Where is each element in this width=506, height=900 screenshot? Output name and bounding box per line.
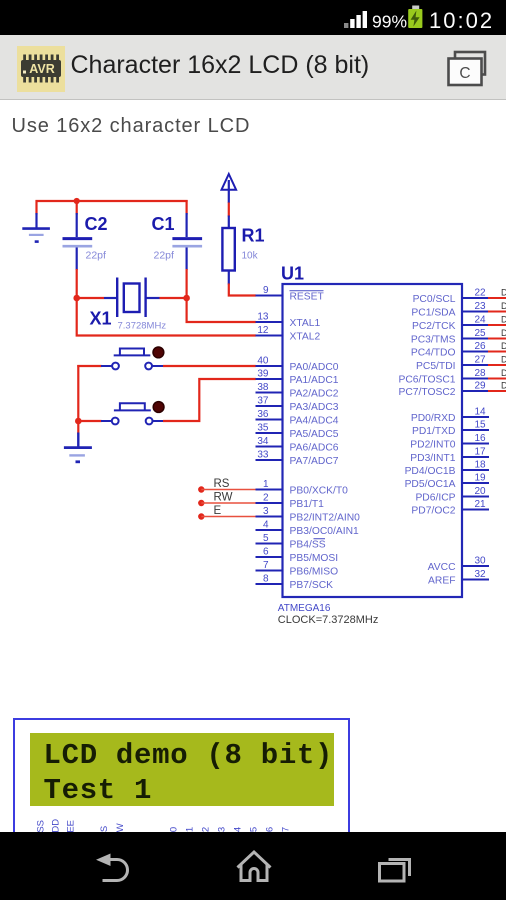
label R1 <box>242 226 265 246</box>
U1 pin 12 (XTAL2) stub <box>256 335 284 337</box>
svg-text:PA6/ADC6: PA6/ADC6 <box>290 443 339 454</box>
svg-text:PD1/TXD: PD1/TXD <box>412 426 456 437</box>
svg-text:22: 22 <box>474 288 486 299</box>
crystal X1 <box>104 278 160 318</box>
U1 pin name PA5/ADC5 <box>290 429 339 440</box>
wire: crystal row left segment <box>77 297 104 299</box>
svg-text:21: 21 <box>474 499 486 510</box>
svg-text:D6: D6 <box>501 368 506 378</box>
svg-text:36: 36 <box>257 409 269 420</box>
svg-text:PA0/ADC0: PA0/ADC0 <box>290 362 339 373</box>
U1 pin 30 (AVCC) stub <box>461 565 489 567</box>
svg-text:PB4/SS: PB4/SS <box>290 540 326 551</box>
wire: net D0 from pin 22 to LCD <box>488 297 506 299</box>
svg-text:PB0/XCK/T0: PB0/XCK/T0 <box>290 486 349 497</box>
svg-text:C1: C1 <box>152 214 175 234</box>
LCD pin label VDD <box>51 819 62 839</box>
U1 pin name PA3/ADC3 <box>290 402 339 413</box>
U1 pin number 16 <box>474 433 486 444</box>
part name ATMEGA16 <box>278 603 331 614</box>
wire: net D5 from pin 27 to LCD <box>488 364 506 366</box>
LCD pin labels <box>0 805 310 845</box>
status: battery percent 99% <box>372 12 407 32</box>
U1 pin name PC5/TDI <box>416 361 455 372</box>
U1 pin number 17 <box>474 447 486 458</box>
nav: back button <box>96 854 128 881</box>
U1 pin name PD4/OC1B <box>405 466 456 477</box>
U1 pin name PC7/TOSC2 <box>398 387 455 398</box>
net label D6 <box>501 368 506 378</box>
LCD text line 2 <box>44 774 153 807</box>
svg-text:D7: D7 <box>501 381 506 391</box>
U1 pin 17 (PD3/INT1) stub <box>461 456 489 458</box>
wire: R1 to RESET pin 9 <box>229 284 256 296</box>
U1 pin number 26 <box>474 341 486 352</box>
wire: net D4 from pin 26 to LCD <box>488 351 506 353</box>
U1 pin name PB1/T1 <box>290 499 325 510</box>
svg-text:PD4/OC1B: PD4/OC1B <box>405 466 456 477</box>
svg-text:RESET: RESET <box>290 292 325 303</box>
node RW terminal dot <box>198 500 204 506</box>
wire: net RS to U1 <box>201 489 256 491</box>
U1 pin number 4 <box>263 520 269 531</box>
svg-text:30: 30 <box>474 556 486 567</box>
U1 pin 2 (PB1/T1) stub <box>256 502 284 504</box>
LCD pin label E <box>131 833 142 839</box>
svg-text:13: 13 <box>257 312 269 323</box>
U1 pin name PD6/ICP <box>415 493 455 504</box>
svg-text:PC4/TDO: PC4/TDO <box>411 348 456 359</box>
status: clock 10:02 <box>429 8 494 33</box>
net label D3 <box>501 328 506 338</box>
U1 pin number 2 <box>263 493 269 504</box>
U1 pin name PB7/SCK <box>290 580 334 591</box>
U1 pin name XTAL2 <box>290 332 321 343</box>
U1 pin name PC0/SCL <box>413 294 456 305</box>
U1 pin 24 (PC2/TCK) stub <box>461 324 489 326</box>
U1 pin number 32 <box>474 569 486 580</box>
LCD screen <box>30 733 334 806</box>
wire: button rail vertical <box>77 365 79 421</box>
svg-text:PC6/TOSC1: PC6/TOSC1 <box>398 375 455 386</box>
svg-text:PB6/MISO: PB6/MISO <box>290 567 339 578</box>
svg-text:32: 32 <box>474 569 486 580</box>
U1 pin number 21 <box>474 499 486 510</box>
wire: VCC to R1 <box>228 203 230 217</box>
U1 pin 7 (PB6/MISO) stub <box>256 570 284 572</box>
svg-text:8: 8 <box>263 574 269 585</box>
ground (bottom-left) <box>64 421 92 462</box>
SW2 state indicator dot <box>153 402 164 413</box>
wire: net D2 from pin 24 to LCD <box>488 324 506 326</box>
svg-text:PC1/SDA: PC1/SDA <box>411 308 455 319</box>
U1 pin name AREF <box>428 576 455 587</box>
svg-text:D5: D5 <box>501 355 506 365</box>
U1 pin number 19 <box>474 473 486 484</box>
U1 pin 4 (PB3/OC0/AIN1) stub <box>256 529 284 531</box>
U1 pin name PB3/OC0/AIN1 <box>290 526 360 537</box>
U1 pin name PC2/TCK <box>412 321 456 332</box>
net label E <box>214 505 222 517</box>
LCD pin label D7 <box>281 827 292 839</box>
U1 pin 20 (PD6/ICP) stub <box>461 496 489 498</box>
svg-text:PD5/OC1A: PD5/OC1A <box>405 479 456 490</box>
svg-text:23: 23 <box>474 301 486 312</box>
U1 pin 32 (AREF) stub <box>461 579 489 581</box>
svg-text:RS: RS <box>214 478 230 490</box>
wire: net D3 from pin 25 to LCD <box>488 338 506 340</box>
description text <box>12 115 251 138</box>
U1 pin number 22 <box>474 288 486 299</box>
svg-text:37: 37 <box>257 396 269 407</box>
push button SW1 <box>101 349 164 370</box>
U1 pin 9 (RESET) stub <box>256 295 284 297</box>
SW1 state indicator dot <box>153 347 164 358</box>
svg-text:AREF: AREF <box>428 576 455 587</box>
junction: top rail at C2 <box>74 198 80 204</box>
U1 pin 16 (PD2/INT0) stub <box>461 443 489 445</box>
svg-text:PB7/SCK: PB7/SCK <box>290 580 334 591</box>
svg-text:PC0/SCL: PC0/SCL <box>413 294 456 305</box>
svg-text:C2: C2 <box>85 214 108 234</box>
U1 pin name XTAL1 <box>290 318 321 329</box>
LCD module LCD1 outline <box>13 718 350 874</box>
net label RS <box>214 478 230 490</box>
svg-text:PD7/OC2: PD7/OC2 <box>411 506 455 517</box>
svg-text:19: 19 <box>474 473 486 484</box>
U1 pin name PB0/XCK/T0 <box>290 486 349 497</box>
LCD pin label VSS <box>36 820 47 839</box>
U1 pin number 7 <box>263 560 269 571</box>
value X1 7.3728MHz <box>118 321 167 332</box>
LCD pin label RW <box>115 823 126 839</box>
svg-text:PA1/ADC1: PA1/ADC1 <box>290 375 339 386</box>
LCD pin label RS <box>99 826 110 839</box>
U1 pin number 33 <box>257 450 269 461</box>
svg-text:E: E <box>214 505 222 517</box>
svg-text:RW: RW <box>214 492 233 504</box>
svg-text:D2: D2 <box>501 315 506 325</box>
svg-text:17: 17 <box>474 447 486 458</box>
U1 pin number 39 <box>257 369 269 380</box>
U1 pin name PA0/ADC0 <box>290 362 339 373</box>
svg-text:AVCC: AVCC <box>428 562 456 573</box>
U1 pin name PA7/ADC7 <box>290 456 339 467</box>
label U1 <box>281 264 304 284</box>
LCD pin label D6 <box>265 827 276 839</box>
svg-text:99%: 99% <box>372 12 407 32</box>
svg-text:14: 14 <box>474 407 486 418</box>
svg-text:PA7/ADC7: PA7/ADC7 <box>290 456 339 467</box>
LCD pin label D3 <box>217 827 228 839</box>
LCD pin label D5 <box>249 827 260 839</box>
U1 pin name PD3/INT1 <box>410 453 455 464</box>
circuit schematic <box>0 120 506 680</box>
svg-text:PD3/INT1: PD3/INT1 <box>410 453 455 464</box>
push button SW2 <box>101 403 164 424</box>
U1 pin name PD2/INT0 <box>410 440 455 451</box>
svg-text:12: 12 <box>257 325 269 336</box>
svg-text:15: 15 <box>474 420 486 431</box>
U1 pin 40 (PA0/ADC0) stub <box>256 365 284 367</box>
LCD text line 1 <box>44 739 334 772</box>
U1 pin number 38 <box>257 382 269 393</box>
svg-text:7.3728MHz: 7.3728MHz <box>118 321 167 332</box>
svg-text:27: 27 <box>474 355 486 366</box>
svg-text:C: C <box>459 65 470 82</box>
U1 pin name PD1/TXD <box>412 426 456 437</box>
net label D4 <box>501 341 506 351</box>
status: signal strength icon <box>344 11 367 28</box>
U1 pin number 27 <box>474 355 486 366</box>
svg-text:3: 3 <box>263 506 269 517</box>
U1 pin number 18 <box>474 460 486 471</box>
U1 pin number 9 <box>263 285 269 296</box>
net label RW <box>214 492 233 504</box>
U1 pin name PA1/ADC1 <box>290 375 339 386</box>
U1 pin 3 (PB2/INT2/AIN0) stub <box>256 516 284 518</box>
svg-text:PD0/RXD: PD0/RXD <box>411 413 456 424</box>
U1 pin name PB5/MOSI <box>290 553 339 564</box>
U1 pin number 6 <box>263 547 269 558</box>
svg-text:PB2/INT2/AIN0: PB2/INT2/AIN0 <box>290 513 361 524</box>
LCD pin label D4 <box>233 827 244 839</box>
U1 pin 22 (PC0/SCL) stub <box>461 297 489 299</box>
app icon AVR chip <box>17 46 65 92</box>
svg-text:PA4/ADC4: PA4/ADC4 <box>290 416 339 427</box>
wire: VCC net top rail (GND stub to C2 to C1) <box>36 200 188 215</box>
wire: net E to U1 <box>201 516 256 518</box>
svg-text:38: 38 <box>257 382 269 393</box>
LCD pin label D1 <box>185 827 196 839</box>
net label D0 <box>501 288 506 298</box>
value C1 22pf <box>154 250 175 262</box>
svg-text:5: 5 <box>263 533 269 544</box>
U1 pin 39 (PA1/ADC1) stub <box>256 378 284 380</box>
capacitor C2 <box>63 213 93 270</box>
U1 pin number 37 <box>257 396 269 407</box>
junction: crystal left node <box>73 295 80 302</box>
status: battery charging icon <box>408 6 422 29</box>
value C2 22pf <box>86 250 107 262</box>
U1 pin 38 (PA2/ADC2) stub <box>256 392 284 394</box>
ground (top-left) <box>22 213 50 242</box>
U1 pin number 8 <box>263 574 269 585</box>
svg-text:PC3/TMS: PC3/TMS <box>411 335 456 346</box>
U1 pin number 1 <box>263 479 269 490</box>
U1 pin number 25 <box>474 328 486 339</box>
wire: button 2 left <box>77 420 101 422</box>
property CLOCK=7.3728MHz <box>278 614 379 626</box>
svg-text:22pf: 22pf <box>86 250 107 262</box>
wire: net RW to U1 <box>201 502 256 504</box>
net label D5 <box>501 355 506 365</box>
svg-text:6: 6 <box>263 547 269 558</box>
nav: recent apps button <box>380 860 410 882</box>
node E terminal dot <box>198 513 204 519</box>
navigation bar <box>0 832 506 900</box>
svg-text:22pf: 22pf <box>154 250 175 262</box>
U1 pin name PC4/TDO <box>411 348 456 359</box>
U1 pin number 35 <box>257 423 269 434</box>
label C1 <box>152 214 175 234</box>
U1 pin number 20 <box>474 486 486 497</box>
svg-text:7: 7 <box>263 560 269 571</box>
svg-text:PD6/ICP: PD6/ICP <box>415 493 455 504</box>
U1 pin 37 (PA3/ADC3) stub <box>256 405 284 407</box>
U1 pin name PC1/SDA <box>411 308 455 319</box>
U1 pin 15 (PD1/TXD) stub <box>461 429 489 431</box>
svg-text:25: 25 <box>474 328 486 339</box>
U1 pin 25 (PC3/TMS) stub <box>461 338 489 340</box>
svg-text:28: 28 <box>474 368 486 379</box>
U1 pin name PB4/SS <box>290 539 326 551</box>
junction: rail at button 2 <box>75 418 82 425</box>
U1 pin 33 (PA7/ADC7) stub <box>256 459 284 461</box>
capacitor C1 <box>172 213 202 270</box>
U1 pin number 40 <box>257 356 269 367</box>
svg-text:1: 1 <box>263 479 269 490</box>
power VCC arrow terminal <box>222 174 237 203</box>
svg-text:D3: D3 <box>501 328 506 338</box>
U1 pin 6 (PB5/MOSI) stub <box>256 556 284 558</box>
U1 pin 28 (PC6/TOSC1) stub <box>461 378 489 380</box>
svg-text:26: 26 <box>474 341 486 352</box>
U1 pin name RESET <box>290 291 325 303</box>
svg-text:20: 20 <box>474 486 486 497</box>
svg-text:18: 18 <box>474 460 486 471</box>
svg-text:16: 16 <box>474 433 486 444</box>
svg-text:10:02: 10:02 <box>429 8 494 33</box>
wire: net D1 from pin 23 to LCD <box>488 311 506 313</box>
junction: crystal right node <box>183 295 190 302</box>
LCD pin label D2 <box>201 827 212 839</box>
svg-text:PA5/ADC5: PA5/ADC5 <box>290 429 339 440</box>
svg-text:PC7/TOSC2: PC7/TOSC2 <box>398 387 455 398</box>
U1 pin name PB6/MISO <box>290 567 339 578</box>
svg-text:XTAL2: XTAL2 <box>290 332 321 343</box>
svg-text:D4: D4 <box>501 341 506 351</box>
wire: button 1 to PA0 pin 40 <box>163 365 256 367</box>
U1 pin name PD5/OC1A <box>405 479 456 490</box>
svg-text:9: 9 <box>263 285 269 296</box>
U1 pin 21 (PD7/OC2) stub <box>461 509 489 511</box>
wire: net D6 from pin 28 to LCD <box>488 378 506 380</box>
U1 pin number 28 <box>474 368 486 379</box>
U1 pin name AVCC <box>428 562 456 573</box>
U1 pin 26 (PC4/TDO) stub <box>461 351 489 353</box>
svg-text:PD2/INT0: PD2/INT0 <box>410 440 455 451</box>
net label D1 <box>501 301 506 311</box>
svg-text:35: 35 <box>257 423 269 434</box>
LCD pin label VEE <box>66 820 77 839</box>
U1 pin number 23 <box>474 301 486 312</box>
svg-text:D0: D0 <box>501 288 506 298</box>
svg-text:U1: U1 <box>281 264 304 284</box>
U1 pin 5 (PB4/SS) stub <box>256 543 284 545</box>
svg-text:AVR: AVR <box>29 62 54 76</box>
U1 pin number 14 <box>474 407 486 418</box>
svg-text:XTAL1: XTAL1 <box>290 318 321 329</box>
IC U1 ATMEGA16 body <box>283 284 463 597</box>
svg-text:PA3/ADC3: PA3/ADC3 <box>290 402 339 413</box>
action icon: C source window <box>446 50 488 88</box>
U1 pin 29 (PC7/TOSC2) stub <box>461 390 489 392</box>
wire: C1 bottom to crystal right / XTAL1 drop <box>187 269 256 322</box>
net label D7 <box>501 381 506 391</box>
U1 pin number 30 <box>474 556 486 567</box>
net label D2 <box>501 315 506 325</box>
U1 pin 13 (XTAL1) stub <box>256 321 284 323</box>
resistor R1 <box>222 216 234 285</box>
U1 pin 35 (PA5/ADC5) stub <box>256 432 284 434</box>
svg-text:PC5/TDI: PC5/TDI <box>416 361 455 372</box>
action bar <box>0 35 506 100</box>
svg-text:PB1/T1: PB1/T1 <box>290 499 325 510</box>
svg-text:2: 2 <box>263 493 269 504</box>
U1 pin name PB2/INT2/AIN0 <box>290 513 361 524</box>
svg-text:X1: X1 <box>90 309 112 329</box>
nav: home button <box>238 852 271 881</box>
U1 pin name PD7/OC2 <box>411 506 455 517</box>
svg-text:PC2/TCK: PC2/TCK <box>412 321 456 332</box>
svg-text:R1: R1 <box>242 226 265 246</box>
label X1 <box>90 309 112 329</box>
U1 pin 8 (PB7/SCK) stub <box>256 583 284 585</box>
svg-text:29: 29 <box>474 381 486 392</box>
U1 pin name PC6/TOSC1 <box>398 375 455 386</box>
U1 pin 23 (PC1/SDA) stub <box>461 311 489 313</box>
U1 pin number 24 <box>474 315 486 326</box>
wire: C2 bottom to crystal left / XTAL2 drop <box>77 269 256 336</box>
svg-text:34: 34 <box>257 436 269 447</box>
U1 pin name PA2/ADC2 <box>290 389 339 400</box>
U1 pin 19 (PD5/OC1A) stub <box>461 482 489 484</box>
status bar <box>0 0 506 35</box>
label C2 <box>85 214 108 234</box>
LCD pin label D0 <box>169 827 180 839</box>
U1 pin 14 (PD0/RXD) stub <box>461 416 489 418</box>
svg-text:40: 40 <box>257 356 269 367</box>
svg-text:D1: D1 <box>501 301 506 311</box>
U1 pin name PA6/ADC6 <box>290 443 339 454</box>
wire: net D7 from pin 29 to LCD <box>488 390 506 392</box>
svg-text:24: 24 <box>474 315 486 326</box>
svg-text:39: 39 <box>257 369 269 380</box>
U1 pin name PA4/ADC4 <box>290 416 339 427</box>
U1 pin number 5 <box>263 533 269 544</box>
U1 pin number 34 <box>257 436 269 447</box>
U1 pin number 36 <box>257 409 269 420</box>
U1 pin 1 (PB0/XCK/T0) stub <box>256 489 284 491</box>
U1 pin 18 (PD4/OC1B) stub <box>461 469 489 471</box>
wire: crystal row right segment <box>160 297 187 299</box>
U1 pin name PD0/RXD <box>411 413 456 424</box>
U1 pin name PC3/TMS <box>411 335 456 346</box>
svg-text:PA2/ADC2: PA2/ADC2 <box>290 389 339 400</box>
svg-text:CLOCK=7.3728MHz: CLOCK=7.3728MHz <box>278 614 379 626</box>
wire: button 1 left <box>77 365 101 367</box>
svg-text:ATMEGA16: ATMEGA16 <box>278 603 331 614</box>
wire: button 2 up to PA1 pin 39 <box>163 379 256 421</box>
U1 pin number 3 <box>263 506 269 517</box>
svg-text:33: 33 <box>257 450 269 461</box>
svg-text:PB5/MOSI: PB5/MOSI <box>290 553 339 564</box>
U1 pin number 12 <box>257 325 269 336</box>
U1 pin number 15 <box>474 420 486 431</box>
U1 pin 34 (PA6/ADC6) stub <box>256 446 284 448</box>
svg-text:PB3/OC0/AIN1: PB3/OC0/AIN1 <box>290 526 360 537</box>
